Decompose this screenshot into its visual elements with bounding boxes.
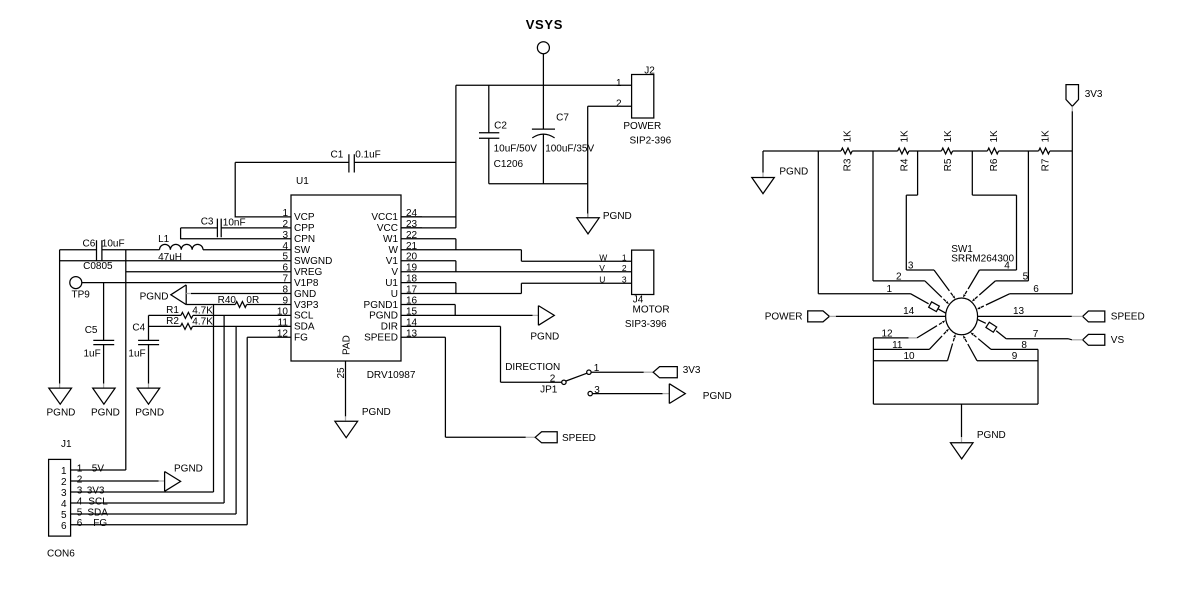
- tag VS: [1083, 334, 1125, 346]
- SW1 pin 1 lead with contact square: [911, 294, 946, 314]
- svg-text:V1: V1: [386, 256, 399, 267]
- wire FG pin 12 to J1 pin 6: [247, 337, 270, 525]
- wire C1 left to pin 1 VCP: [235, 162, 270, 217]
- svg-text:PGND: PGND: [135, 408, 164, 419]
- svg-text:C6: C6: [83, 238, 96, 249]
- wire PGND1/PGND pins 16/15: [422, 305, 533, 316]
- svg-text:8: 8: [1021, 340, 1027, 351]
- svg-text:FG: FG: [93, 518, 107, 529]
- svg-text:GND: GND: [294, 289, 316, 300]
- resistor R6 1K: [987, 148, 998, 154]
- svg-text:SPEED: SPEED: [364, 333, 398, 344]
- svg-text:SCL: SCL: [294, 311, 314, 322]
- svg-text:2: 2: [550, 374, 556, 385]
- svg-text:1: 1: [887, 284, 893, 295]
- wire SW1 left vertical and bottom bus: [873, 338, 1038, 404]
- svg-text:10uF/50V: 10uF/50V: [494, 144, 538, 155]
- svg-text:U: U: [391, 289, 398, 300]
- svg-text:4.7K: 4.7K: [192, 306, 213, 317]
- svg-text:11: 11: [278, 317, 289, 328]
- svg-text:W: W: [389, 245, 399, 256]
- svg-text:PGND: PGND: [530, 332, 559, 343]
- ground PGND under J2: [577, 218, 599, 234]
- svg-text:1: 1: [622, 252, 627, 262]
- wire rail to SW1 pin 3: [906, 151, 934, 270]
- wire left vertical from bus to C1 and VCC pins: [401, 85, 456, 228]
- J1 pin 3 wire 3V3: [71, 491, 214, 493]
- svg-text:17: 17: [406, 285, 418, 296]
- svg-text:PGND: PGND: [174, 463, 203, 474]
- wire W1/W pair to J4 pin 1: [422, 239, 632, 261]
- svg-text:PGND: PGND: [140, 292, 169, 303]
- svg-text:7: 7: [1033, 329, 1039, 340]
- J1 pin 2 wire to PGND flag: [71, 480, 159, 482]
- svg-text:1K: 1K: [989, 130, 1000, 143]
- wire SW1 pin 8: [991, 349, 1038, 404]
- svg-text:2: 2: [622, 263, 627, 273]
- J1 pin 4 wire SCL: [71, 502, 225, 504]
- svg-text:R6: R6: [989, 158, 1000, 171]
- svg-text:14: 14: [903, 306, 915, 317]
- resistor R3 1K: [841, 148, 852, 154]
- svg-text:0R: 0R: [246, 295, 259, 306]
- SW1 pin 6 lead: [981, 294, 1010, 308]
- svg-text:1K: 1K: [1040, 130, 1051, 143]
- svg-text:5V: 5V: [92, 463, 105, 474]
- svg-text:1: 1: [61, 466, 67, 477]
- svg-text:6: 6: [1033, 284, 1039, 295]
- svg-text:C2: C2: [494, 120, 507, 131]
- svg-text:5: 5: [1023, 271, 1029, 282]
- svg-text:3: 3: [908, 261, 914, 272]
- svg-text:10: 10: [277, 306, 289, 317]
- wire VSYS down to C7: [542, 54, 544, 129]
- svg-text:CPN: CPN: [294, 234, 315, 245]
- wire rail to SW1 pin 5: [995, 151, 1028, 281]
- J1 pin 1 wire 5V: [71, 469, 126, 471]
- svg-text:DIR: DIR: [381, 322, 398, 333]
- J1 pin numbers inside: [61, 466, 67, 532]
- svg-text:100uF/35V: 100uF/35V: [545, 144, 594, 155]
- wire pin25 to ground: [345, 361, 347, 416]
- svg-text:4: 4: [282, 241, 288, 252]
- svg-text:SDA: SDA: [87, 507, 108, 518]
- svg-text:6: 6: [282, 263, 288, 274]
- svg-text:22: 22: [406, 230, 418, 241]
- power flag PGND at JP1 pin 3: [669, 384, 685, 404]
- capacitor C4 1uF: [128, 315, 159, 383]
- svg-text:VCC: VCC: [377, 223, 398, 234]
- svg-text:VCC1: VCC1: [371, 212, 398, 223]
- SW1 pin 10 lead: [948, 338, 955, 361]
- svg-text:R2: R2: [166, 316, 179, 327]
- svg-text:SCL: SCL: [88, 496, 108, 507]
- wire rail segments: [763, 150, 1072, 152]
- svg-text:SWGND: SWGND: [294, 256, 332, 267]
- resistor R2 4.7K: [149, 316, 271, 329]
- power flag PGND at pin 15: [538, 306, 554, 326]
- tag SPEED right: [1083, 311, 1145, 323]
- wire DIR pin 14 to JP1: [422, 326, 562, 382]
- svg-text:W1: W1: [383, 234, 398, 245]
- svg-text:1: 1: [77, 463, 83, 474]
- svg-text:9: 9: [282, 296, 288, 307]
- svg-text:TP9: TP9: [72, 289, 91, 300]
- svg-text:C4: C4: [132, 323, 145, 334]
- svg-text:2: 2: [77, 474, 83, 485]
- ground PGND under SW1: [951, 443, 974, 459]
- svg-text:POWER: POWER: [765, 312, 803, 323]
- svg-text:R3: R3: [843, 158, 854, 171]
- wire SW1 pin 10: [873, 360, 947, 362]
- svg-text:3: 3: [77, 485, 83, 496]
- svg-text:3V3: 3V3: [87, 485, 105, 496]
- svg-text:12: 12: [882, 328, 894, 339]
- svg-text:J2: J2: [644, 66, 655, 77]
- ground PGND under C5: [93, 388, 115, 404]
- power flag PGND at GND pin 8: [140, 285, 270, 305]
- svg-text:PGND: PGND: [779, 166, 808, 177]
- wire CPN pin 3 to C3 left: [181, 228, 270, 239]
- svg-text:DIRECTION: DIRECTION: [505, 362, 560, 373]
- svg-text:MOTOR: MOTOR: [633, 305, 670, 316]
- svg-text:C3: C3: [201, 217, 214, 228]
- wire SWGND pin 5 rail: [60, 260, 270, 262]
- wire top bus VSYS to J2 pin 1: [456, 84, 632, 86]
- resistor R4 1K: [898, 148, 909, 154]
- wire 3V3 down to rail: [1071, 111, 1073, 151]
- ground PGND left column: [49, 388, 72, 404]
- svg-text:CPP: CPP: [294, 223, 315, 234]
- wire J2 pin 2 down to bus and ground: [588, 106, 632, 217]
- svg-text:PGND: PGND: [977, 430, 1006, 441]
- svg-text:PGND: PGND: [369, 311, 398, 322]
- svg-text:CON6: CON6: [47, 548, 75, 559]
- svg-text:10uF: 10uF: [102, 238, 125, 249]
- wire SW1 pin 11: [873, 348, 929, 350]
- svg-text:1uF: 1uF: [84, 349, 101, 360]
- svg-text:V1P8: V1P8: [294, 278, 319, 289]
- svg-text:VREG: VREG: [294, 267, 323, 278]
- svg-text:10nF: 10nF: [223, 218, 246, 229]
- svg-text:4.7K: 4.7K: [192, 316, 213, 327]
- svg-text:C1: C1: [331, 149, 344, 160]
- svg-text:L1: L1: [158, 234, 170, 245]
- svg-text:8: 8: [282, 285, 288, 296]
- capacitor C3 10nF: [181, 217, 270, 238]
- U1 right pin numbers: [406, 208, 418, 339]
- svg-text:POWER: POWER: [623, 121, 661, 132]
- svg-text:6: 6: [77, 518, 83, 529]
- svg-text:3V3: 3V3: [683, 365, 701, 376]
- wire bottom bus to ground: [961, 404, 963, 437]
- ground PGND under C4: [137, 388, 160, 404]
- svg-text:4: 4: [61, 499, 67, 510]
- svg-text:U1: U1: [385, 278, 398, 289]
- capacitor C5 1uF: [84, 283, 115, 384]
- svg-text:R5: R5: [943, 158, 954, 171]
- svg-text:3: 3: [61, 488, 67, 499]
- svg-text:3V3: 3V3: [1085, 89, 1103, 100]
- svg-text:4: 4: [77, 496, 83, 507]
- svg-text:11: 11: [892, 340, 903, 351]
- wire POWER to SW1 pin 14: [836, 315, 946, 317]
- svg-text:JP1: JP1: [540, 384, 558, 395]
- wire bottom bus under C2 C7: [489, 183, 588, 185]
- SW1 pin 12 lead: [917, 323, 942, 338]
- wire JP1 pin 1 to 3V3 tag: [591, 371, 644, 373]
- svg-text:3: 3: [282, 230, 288, 241]
- power symbol VSYS: [526, 17, 563, 54]
- svg-text:SDA: SDA: [294, 322, 315, 333]
- wire SW1 pin 7 to VS tag: [1006, 339, 1072, 340]
- svg-text:1: 1: [616, 78, 622, 89]
- svg-text:21: 21: [406, 241, 418, 252]
- svg-text:V3P3: V3P3: [294, 300, 319, 311]
- wire SW1 pin 9: [977, 360, 1038, 362]
- svg-text:DRV10987: DRV10987: [367, 370, 416, 381]
- svg-text:1K: 1K: [899, 130, 910, 143]
- wire SW1 pin 12: [873, 337, 908, 339]
- svg-text:13: 13: [406, 328, 418, 339]
- connector J2 POWER SIP2-396: [616, 66, 672, 147]
- svg-text:1: 1: [282, 208, 288, 219]
- connector J1 CON6 body: [47, 439, 75, 559]
- op IC U1 DRV10987 body: [291, 176, 416, 381]
- SW1 pin 5 lead: [975, 281, 996, 299]
- svg-text:C1206: C1206: [494, 159, 524, 170]
- connector J4 MOTOR SIP3-396: [625, 250, 670, 330]
- U1 right pin names: [364, 212, 399, 343]
- svg-text:6: 6: [61, 521, 67, 532]
- svg-text:VSYS: VSYS: [526, 17, 563, 32]
- SW1 pin 7 lead with contact square: [978, 320, 1006, 339]
- J1 pin 6 wire FG: [71, 524, 248, 526]
- svg-text:J1: J1: [61, 439, 72, 450]
- wire rail to SW1 pin 1: [818, 151, 910, 294]
- ground PGND under pin 25: [335, 421, 358, 437]
- svg-text:C7: C7: [556, 113, 569, 124]
- svg-text:5: 5: [282, 252, 288, 263]
- capacitor C7 100uF/35V polarized: [532, 113, 595, 184]
- svg-text:2: 2: [896, 271, 902, 282]
- svg-text:R1: R1: [166, 305, 179, 316]
- SW1 pin 8 lead: [974, 335, 991, 350]
- svg-text:2: 2: [616, 99, 622, 110]
- tag POWER: [765, 311, 830, 323]
- svg-text:4: 4: [1004, 261, 1010, 272]
- svg-text:C0805: C0805: [83, 261, 113, 272]
- wire rail to SW1 pin 6: [1010, 151, 1073, 294]
- capacitor C6 10uF C0805: [60, 238, 125, 272]
- svg-text:7: 7: [282, 274, 288, 285]
- svg-text:1uF: 1uF: [128, 349, 145, 360]
- switch SW1 rotor circle: [946, 298, 978, 335]
- svg-text:W: W: [599, 252, 607, 262]
- svg-text:SPEED: SPEED: [562, 433, 596, 444]
- resistor R7 1K: [1039, 148, 1050, 154]
- wire U1/U pair to J4 pin 3: [422, 283, 632, 294]
- tag SPEED: [535, 432, 557, 443]
- svg-text:16: 16: [406, 296, 418, 307]
- SW1 pin 11 lead: [929, 332, 946, 350]
- svg-text:5: 5: [77, 507, 83, 518]
- svg-text:1K: 1K: [943, 130, 954, 143]
- svg-text:PGND1: PGND1: [364, 300, 399, 311]
- svg-text:PGND: PGND: [703, 391, 732, 402]
- jumper JP1 DIRECTION: [505, 362, 600, 396]
- svg-text:SPEED: SPEED: [1111, 312, 1145, 323]
- svg-text:PGND: PGND: [91, 408, 120, 419]
- ground PGND left of rail: [752, 178, 775, 194]
- svg-text:U1: U1: [296, 176, 309, 187]
- wire V1P8 pin 7: [82, 282, 270, 284]
- wire 3V3 vertical from R40 node to J1 pin 3: [213, 305, 215, 493]
- svg-text:15: 15: [406, 306, 418, 317]
- SW1 pin 9 lead: [965, 339, 977, 361]
- wire SDA vertical to J1 pin 5: [235, 326, 237, 514]
- svg-text:PGND: PGND: [362, 407, 391, 418]
- wire rail to SW1 pin 2: [873, 151, 925, 281]
- svg-text:SIP3-396: SIP3-396: [625, 319, 667, 330]
- test point TP9: [70, 277, 90, 301]
- svg-text:FG: FG: [294, 333, 308, 344]
- svg-text:PAD: PAD: [342, 335, 353, 355]
- SW1 pin 4 lead: [965, 270, 979, 294]
- wire left vertical to ground: [59, 250, 61, 384]
- SW1 pin 3 lead: [934, 270, 953, 296]
- wire V1/V pair to J4 pin 2: [422, 261, 632, 272]
- svg-text:SW: SW: [294, 245, 311, 256]
- wire JP1 pin 3 to PGND flag: [592, 393, 662, 395]
- J1 pin 5 wire SDA: [71, 513, 237, 515]
- tag 3V3 top right: [1066, 85, 1103, 107]
- svg-text:VS: VS: [1111, 335, 1125, 346]
- capacitor C1 0.1uF: [235, 149, 456, 172]
- svg-text:3: 3: [622, 274, 627, 284]
- svg-text:12: 12: [277, 328, 289, 339]
- wire rail left end down to ground: [762, 151, 764, 173]
- U1 left pin numbers: [277, 208, 289, 339]
- svg-text:10: 10: [904, 351, 916, 362]
- svg-text:PGND: PGND: [603, 211, 632, 222]
- svg-text:13: 13: [1013, 306, 1025, 317]
- resistor R40 0R: [186, 295, 270, 307]
- capacitor C2 10uF/50V C1206: [479, 85, 537, 184]
- svg-text:C5: C5: [85, 325, 98, 336]
- wire SCL vertical to J1 pin 4: [223, 315, 225, 503]
- U1 left pin names: [294, 212, 332, 343]
- U1 right pin stubs 24-13: [401, 217, 422, 337]
- wire rail to SW1 pin 4: [972, 151, 1016, 270]
- svg-text:2: 2: [282, 219, 288, 230]
- power flag PGND at J1 pin 2: [165, 472, 181, 492]
- svg-text:5: 5: [61, 510, 67, 521]
- wire VREG 5V vertical: [126, 250, 270, 470]
- svg-text:9: 9: [1012, 351, 1018, 362]
- svg-text:19: 19: [406, 263, 418, 274]
- svg-text:0.1uF: 0.1uF: [355, 149, 381, 160]
- svg-text:14: 14: [406, 317, 418, 328]
- svg-text:V: V: [599, 263, 605, 273]
- resistor R1 4.7K: [149, 305, 271, 319]
- svg-text:20: 20: [406, 252, 418, 263]
- wire L1 to C6: [102, 249, 160, 251]
- tag 3V3: [653, 367, 677, 378]
- svg-text:U: U: [599, 274, 605, 284]
- svg-text:VCP: VCP: [294, 212, 315, 223]
- svg-text:R7: R7: [1040, 158, 1051, 171]
- svg-text:SIP2-396: SIP2-396: [630, 135, 672, 146]
- inductor L1 47uH: [158, 234, 270, 263]
- wire SW1 pin 13 to SPEED tag: [978, 315, 1072, 317]
- svg-text:2: 2: [61, 477, 67, 488]
- wire SPEED pin 13: [422, 337, 526, 437]
- svg-text:V: V: [391, 267, 398, 278]
- svg-text:R4: R4: [899, 158, 910, 171]
- svg-text:PGND: PGND: [47, 408, 76, 419]
- SW1 pin 2 lead: [925, 281, 946, 302]
- svg-text:R40: R40: [218, 295, 237, 306]
- resistor R5 1K: [941, 148, 952, 154]
- svg-text:1K: 1K: [843, 130, 854, 143]
- U1 left pin stubs 1-12: [270, 217, 291, 337]
- svg-text:18: 18: [406, 274, 418, 285]
